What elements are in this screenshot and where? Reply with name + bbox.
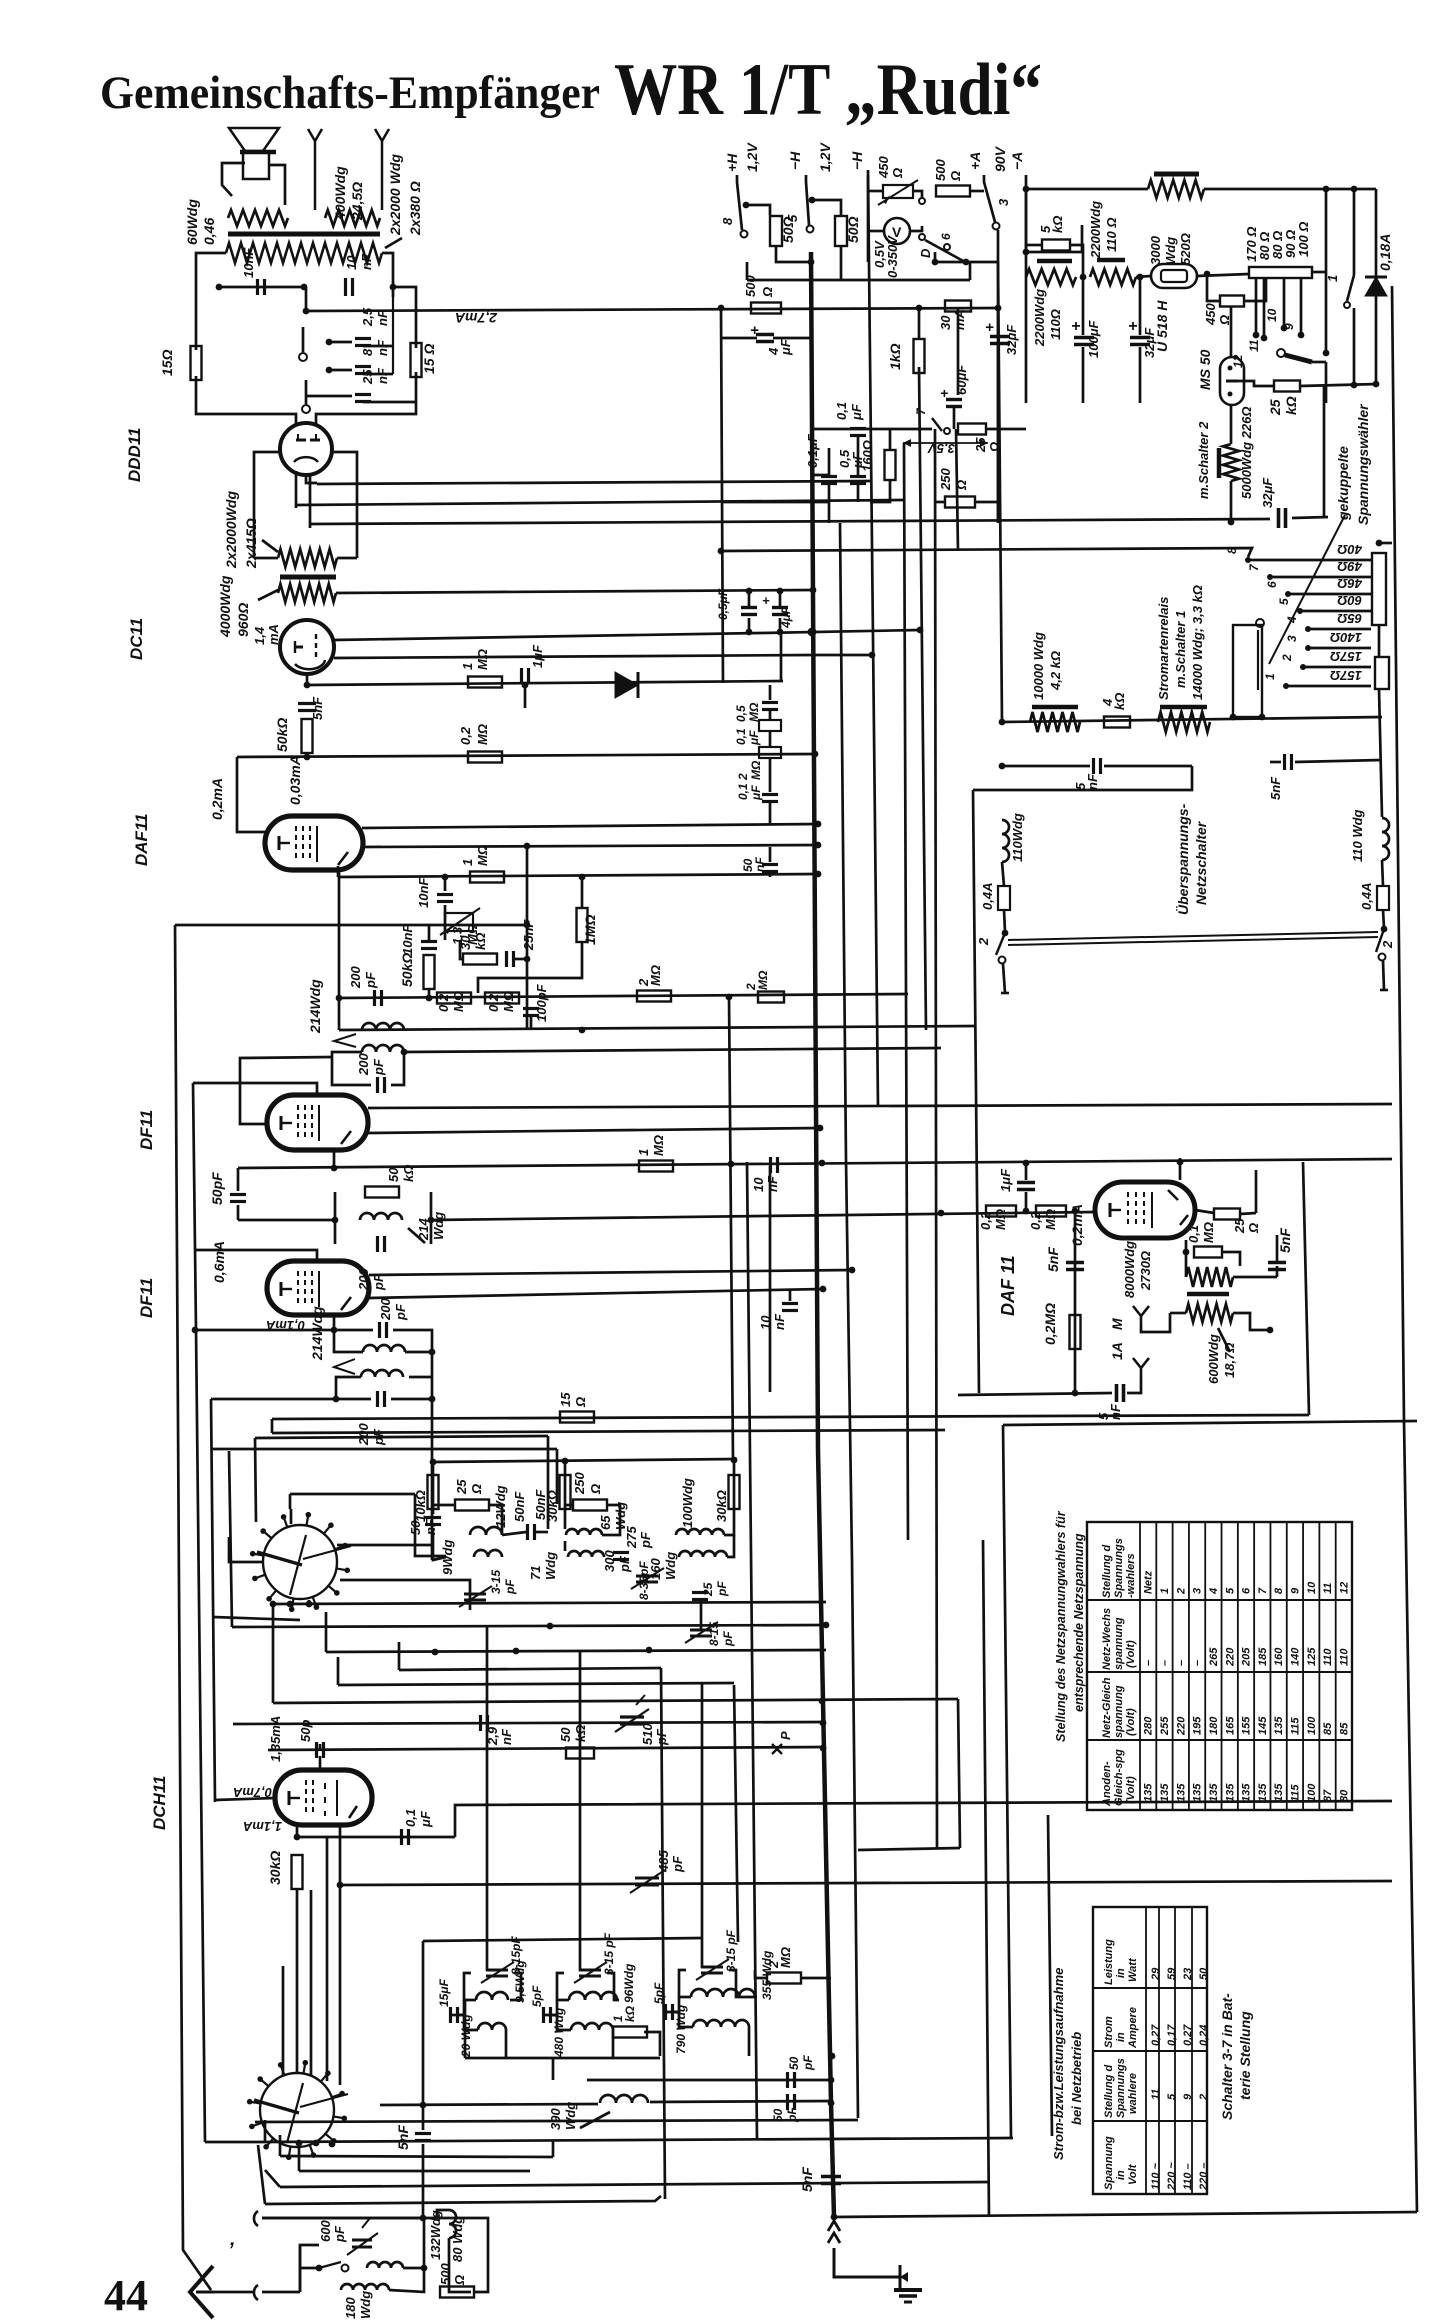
svg-text:entsprechende Netzspannung: entsprechende Netzspannung (1072, 1533, 1086, 1712)
svg-text:200: 200 (356, 1423, 371, 1446)
svg-text:nF: nF (375, 309, 390, 326)
svg-text:0,2mA: 0,2mA (209, 778, 225, 820)
bus y2142 (265, 2138, 1013, 2142)
wire y429 (811, 428, 932, 431)
svg-text:2: 2 (1380, 940, 1395, 949)
winding 2x2000Wdg 2x415Ω (278, 549, 337, 567)
svg-text:25: 25 (701, 1582, 715, 1597)
capacitor 200pF ifb (378, 1077, 385, 1093)
table2 h4b (1115, 1968, 1127, 1978)
wire speaker right (268, 165, 285, 205)
label 2MΩ a2 (648, 965, 663, 986)
wire 10nF2 up (428, 925, 431, 941)
wire 110 down (1002, 862, 1004, 886)
wire 50nF det leads2 (769, 874, 772, 877)
table1 wechs 3 (1192, 1660, 1204, 1666)
table1 row label 9 (1290, 1587, 1302, 1594)
bus y766 b (1104, 765, 1192, 768)
node x1083 y277 (1080, 274, 1087, 281)
selector num 3 (1285, 635, 1299, 642)
stub tick right (1380, 989, 1388, 992)
label 450Ω msb (1217, 315, 1232, 326)
osc group2 coil1 (569, 1992, 617, 2000)
capacitor 0,5µF (850, 477, 866, 484)
table1 anod 2 (1175, 1783, 1187, 1802)
selector label 157&#937; 2 (1330, 649, 1362, 664)
wire avc v2 (444, 905, 447, 940)
leader line 2x2000Wdg (385, 238, 402, 248)
resistor 15Ω right (411, 343, 422, 377)
svg-text:kΩ: kΩ (1050, 216, 1065, 233)
table1 header col1b (1113, 1538, 1125, 1598)
wire osc down2 (552, 2058, 555, 2080)
capacitor 0,1µF a (850, 429, 866, 436)
plug arrow (828, 2221, 840, 2243)
wire 600 left (1170, 1312, 1186, 1315)
label 3-15pF a2 (503, 1579, 517, 1595)
svg-text:Spannung: Spannung (1103, 2136, 1115, 2190)
svg-text:4: 4 (1285, 616, 1299, 624)
svg-text:MΩ: MΩ (475, 649, 490, 670)
node x582 y1030 (579, 1027, 586, 1034)
resistor 50Ω b (835, 216, 847, 246)
table1 header col3 (1101, 1677, 1113, 1738)
label 0,5µF b (850, 451, 865, 469)
svg-text:500: 500 (743, 275, 758, 297)
svg-text:110Ω: 110Ω (1048, 309, 1063, 340)
wire x1326 (1325, 189, 1328, 353)
label 110Wdg left (1010, 813, 1025, 862)
svg-text:135: 135 (1143, 1783, 1155, 1802)
wire x1326 down (1325, 362, 1328, 403)
node x1026 y189 (1023, 186, 1030, 193)
core bar out (1187, 1292, 1229, 1297)
svg-text:pF: pF (670, 1855, 685, 1873)
node x935 y262 (932, 259, 939, 266)
label 10nF y1165 (751, 1177, 766, 1192)
svg-text:MΩ: MΩ (756, 970, 770, 990)
wire 100uF v (1082, 277, 1085, 335)
trio B wires (564, 1462, 567, 1529)
bus y1052 (404, 1048, 941, 1052)
svg-text:–: – (1175, 1660, 1187, 1666)
label 8nF b (375, 339, 390, 356)
wire box right2 (449, 2238, 471, 2292)
table1 gleich 12 (1338, 1722, 1350, 1735)
capacitor 50pF dch (317, 1742, 324, 1758)
label DAF11 no1 (132, 813, 151, 866)
switch1 wire b (213, 1617, 300, 1620)
label 71Wdg (528, 1566, 543, 1580)
diode (615, 672, 638, 698)
drum2 riser b (310, 1890, 313, 2076)
node -H (808, 259, 815, 266)
table1 wechs 2 (1175, 1660, 1187, 1666)
label 6 (939, 233, 953, 240)
osc group1 trimmer (481, 1962, 514, 1983)
drum2 riser c (326, 1838, 329, 2081)
label 1MΩ a (460, 663, 475, 670)
wire 250 leads (935, 501, 945, 504)
label 1,1mA (243, 1819, 282, 1834)
table1 row label 3 (1192, 1588, 1204, 1594)
label 0,4A right (1359, 883, 1374, 910)
winding 60Wdg 0,46Ω (228, 210, 288, 226)
wire avc 30k (460, 940, 464, 959)
selector num 4 (1285, 616, 1299, 624)
label 10nF avc (416, 877, 431, 908)
node x1002 y722 (999, 719, 1006, 726)
node x731 y1164 (728, 1161, 735, 1168)
svg-text:Strom: Strom (1103, 2016, 1115, 2048)
label 2,5nF b (375, 309, 390, 326)
label 50nF b (512, 1491, 527, 1522)
selector contact 8 (1245, 557, 1251, 563)
bus y632 (334, 630, 920, 640)
svg-text:2: 2 (976, 937, 991, 946)
svg-text:MΩ: MΩ (651, 1135, 666, 1156)
bus y2204 (265, 2196, 661, 2204)
cap 8 right (363, 373, 393, 376)
svg-text:0,18A: 0,18A (1377, 234, 1393, 271)
svg-text:135: 135 (1159, 1783, 1171, 1802)
resistor 1MΩ a (468, 677, 502, 688)
bus y762 (1270, 761, 1281, 764)
svg-text:Strom-bzw.Leistungsaufnahme: Strom-bzw.Leistungsaufnahme (1051, 1968, 1066, 2160)
table2 h1b (1115, 2170, 1127, 2180)
table2 watt 1 (1166, 1967, 1178, 1980)
svg-text:pF: pF (363, 971, 378, 989)
label 50kΩ if2 (386, 1167, 401, 1182)
node -A (1023, 249, 1030, 256)
trio A wires5 (502, 1532, 526, 1535)
svg-text:spannung: spannung (1113, 1617, 1125, 1670)
selector contact 5 (1297, 608, 1303, 614)
capacitor 5nF right (1285, 754, 1292, 770)
label 600pFb (332, 2225, 347, 2243)
svg-text:2200Wdg: 2200Wdg (1032, 289, 1047, 347)
osc group3 coil1 (691, 1989, 755, 1997)
wire relay bar (1312, 361, 1326, 364)
wire DCH grid left (215, 1798, 275, 1800)
label 1kΩ ps (887, 343, 903, 370)
svg-text:WR 1/T „Rudi“: WR 1/T „Rudi“ (614, 49, 1042, 131)
wire 110r down (1382, 860, 1383, 886)
wire thick bottom (831, 2103, 834, 2217)
svg-text:0,4A: 0,4A (980, 883, 995, 910)
capacitor 200pF if1 (375, 990, 382, 1006)
svg-text:0,17: 0,17 (1166, 2024, 1178, 2046)
node sw2 right (1381, 926, 1388, 933)
table1 row label 1 (1159, 1588, 1171, 1594)
label 1,2V b (817, 142, 833, 172)
osc group1 coil1 (476, 1992, 508, 2000)
label 170Ω blk (1244, 227, 1259, 262)
table1 anod 5 (1224, 1783, 1236, 1802)
winding 4000Wdg 960Ω (278, 584, 336, 602)
label DF11 no1 (137, 1110, 156, 1150)
svg-text:0,03mA: 0,03mA (287, 755, 303, 805)
label 214Wdg a (307, 979, 323, 1034)
drum2 riser a (282, 1966, 285, 2076)
wire sw2r stub (1383, 961, 1384, 990)
bus y825 from DAF11 (362, 824, 818, 828)
page number 44 (104, 2271, 148, 2320)
svg-text:520Ω: 520Ω (1178, 233, 1193, 265)
svg-text:7: 7 (1257, 1587, 1269, 1594)
svg-text:5: 5 (785, 214, 800, 222)
capacitor 5nF ns (1094, 758, 1101, 774)
label 3000Wdg (1148, 235, 1163, 265)
table Leistungsaufnahme grid (1093, 1907, 1207, 2194)
label -H a (787, 151, 803, 170)
coil 214Wdg d (363, 1345, 405, 1352)
wire y2204 left (258, 2145, 265, 2204)
svg-text:80: 80 (1338, 1789, 1350, 1802)
label 500Ω antb (452, 2275, 467, 2286)
svg-text:135: 135 (1241, 1783, 1253, 1802)
svg-text:Überspannungs-: Überspannungs- (1175, 803, 1191, 915)
trimmer 600pF (347, 2218, 378, 2255)
core bar 3000Wdg (1154, 172, 1199, 177)
label 18,7Ω (1222, 1343, 1237, 1378)
label 60Wdg 0,46Ω (184, 199, 200, 245)
node sw ant (316, 2265, 323, 2272)
svg-text:2x2000Wdg: 2x2000Wdg (223, 491, 239, 569)
node x998 y308 (995, 305, 1002, 312)
label 200pF ifb (356, 1053, 371, 1076)
svg-text:1μF: 1μF (998, 1168, 1013, 1192)
svg-text:110: 110 (1322, 1648, 1334, 1666)
wire y2156 upturn (552, 2140, 555, 2157)
label 0,1µF a (834, 402, 849, 420)
wire 50nF det leads (769, 847, 772, 862)
svg-text:wahlere: wahlere (1127, 2073, 1139, 2114)
svg-text:MΩ: MΩ (451, 991, 466, 1012)
svg-text:Netz-Wechs: Netz-Wechs (1101, 1608, 1113, 1670)
svg-text:100pF: 100pF (534, 983, 549, 1022)
svg-text:μF: μF (747, 730, 761, 746)
label 5kΩb (1050, 216, 1065, 233)
wire 32uF v2 (1139, 347, 1142, 403)
label 2x415Ω (243, 518, 259, 569)
svg-text:μF: μF (849, 403, 864, 421)
trio C wire3 (700, 1600, 703, 1630)
label 0,1µF a2 (849, 403, 864, 421)
osc group3 trimlab (724, 1929, 738, 1972)
svg-text:115: 115 (1290, 1784, 1302, 1802)
capacitor 25pF c (692, 1593, 708, 1600)
trio C wires (724, 1462, 734, 1535)
socket 2 (254, 2211, 258, 2226)
svg-text:μF: μF (850, 451, 865, 469)
osc group3 coillab2 (674, 2004, 688, 2054)
svg-text:in: in (1115, 2170, 1127, 2180)
wire 32uF v (1139, 277, 1142, 335)
wire coil e left (336, 1377, 361, 1399)
bus y1438 (255, 1436, 548, 1438)
svg-text:0,1μF: 0,1μF (805, 433, 820, 468)
label 8-15 pF (707, 1622, 721, 1646)
wire 2,7mA bus (306, 308, 998, 311)
wire x432 vertical (431, 1352, 434, 1560)
label 600Wdg (1206, 1334, 1221, 1384)
svg-text:DAF 11: DAF 11 (998, 1255, 1018, 1316)
node 5 (809, 197, 816, 204)
svg-text:5nF: 5nF (1045, 1247, 1061, 1272)
capacitor 32µF a (1130, 338, 1150, 345)
osc group3 w3 (664, 1997, 679, 2012)
svg-text:pF: pF (371, 1058, 386, 1076)
wire -A right (1026, 225, 1082, 252)
svg-text:μF: μF (418, 1810, 433, 1828)
resistor 2MΩ a (637, 991, 671, 1002)
tap4 end (1298, 332, 1305, 339)
label 2 right (1380, 940, 1395, 949)
wire 10nF-b down (305, 287, 308, 311)
label 0,1µF dch (403, 1809, 418, 1827)
label 50pF dch (298, 1720, 313, 1742)
capacitor 10nF 2 (421, 942, 437, 949)
coil 110Wdg right (1382, 818, 1389, 860)
label 510pF (640, 1723, 655, 1745)
label 500Ω ant (438, 2263, 453, 2285)
label 50nF a (408, 1520, 423, 1535)
label det 0,5 (734, 705, 748, 722)
label 2x380Ω (407, 181, 423, 236)
label 8-35pF (637, 1561, 651, 1600)
node x941 y1213 (938, 1210, 945, 1217)
wire ms50 down (1230, 405, 1233, 444)
svg-text:(Volt): (Volt) (1125, 1640, 1137, 1668)
label 8000Wdg (1122, 1241, 1137, 1298)
table1 anod 3 (1192, 1783, 1204, 1802)
label 1,2V a (744, 142, 760, 172)
svg-text:nF: nF (772, 1313, 787, 1330)
node x1270 y1330 (1267, 1327, 1274, 1334)
svg-text:Stromartenrelais: Stromartenrelais (1156, 597, 1171, 700)
table2 volt 2 (1182, 2163, 1194, 2190)
svg-text:60Ω: 60Ω (1337, 593, 1362, 608)
table1 gleich 1 (1159, 1716, 1171, 1736)
table1 header col1 (1101, 1545, 1113, 1598)
wire 32c b (997, 346, 1000, 523)
wire nest rv8 (734, 1685, 738, 1942)
svg-text:5: 5 (1277, 598, 1291, 605)
bus y925 avc (175, 924, 527, 927)
svg-text:Ampere: Ampere (1127, 2007, 1139, 2049)
svg-text:10nF: 10nF (416, 877, 431, 908)
label 180Wdg (343, 2297, 358, 2319)
svg-text:135: 135 (1208, 1783, 1220, 1802)
wire 600 right (1233, 1313, 1270, 1330)
capacitor 50pF (230, 1195, 246, 1202)
svg-text:terie Stellung: terie Stellung (1237, 2011, 1253, 2100)
cluster B rlabel2 (0, 0, 1, 1)
bus y1113 from DF11-1 (368, 1104, 1392, 1108)
resistor 5kΩ (1042, 240, 1070, 251)
table1 gleich 10 (1306, 1716, 1318, 1735)
table1 anod 6 (1241, 1783, 1253, 1802)
tube DAF11 (265, 816, 363, 870)
table1 gleich 4 (1208, 1716, 1220, 1735)
wire coil e right (409, 1376, 432, 1379)
capacitor 10nF if2 (782, 1304, 798, 1311)
label 250Ω psb (954, 480, 969, 491)
drum1 tail b (308, 1600, 311, 1604)
svg-text:Wdg: Wdg (543, 1552, 558, 1580)
svg-text:250: 250 (572, 1472, 587, 1495)
wire +A down2 (998, 262, 1002, 722)
wire y1494 left (289, 1494, 292, 1509)
label plus 4uF (750, 322, 759, 339)
svg-text:510: 510 (640, 1723, 655, 1745)
capacitor 5nF bl (415, 2134, 431, 2141)
label 5000Wdg226 (1239, 406, 1254, 499)
table1 anod 11 (1322, 1789, 1334, 1802)
table1 wechs 1 (1159, 1660, 1171, 1666)
label 485pF (656, 1850, 671, 1873)
osc group1 cap (451, 2007, 458, 2023)
svg-text:Netz: Netz (1143, 1570, 1155, 1594)
label mSchalter2 (1196, 421, 1211, 499)
svg-text:5nF: 5nF (1277, 1228, 1293, 1253)
svg-text:0,24: 0,24 (1198, 2025, 1210, 2046)
wire x340 to drum (339, 1885, 342, 2030)
svg-text:Stellung des Netzspannungwahle: Stellung des Netzspannungwahlers für (1054, 1510, 1068, 1742)
bus y1670 (399, 1668, 661, 1670)
label 60µF (954, 364, 969, 395)
svg-text:11: 11 (1322, 1583, 1334, 1594)
terminal -Hb (867, 175, 870, 262)
label 5nF right (1268, 776, 1283, 800)
svg-text:nF: nF (359, 253, 374, 270)
selector label 46&#937; 6 (1337, 576, 1363, 591)
resistor 1MΩ vert (577, 908, 588, 942)
node x1326 y362 (1323, 350, 1330, 357)
label 0,6mA (211, 1241, 227, 1283)
svg-text:3-15: 3-15 (489, 1570, 503, 1594)
svg-text:25: 25 (454, 1479, 469, 1495)
label 80Ω blk (1257, 232, 1272, 260)
wire cap x776 b (779, 618, 782, 632)
svg-text:32μF: 32μF (1004, 324, 1019, 355)
wire y475 (811, 474, 829, 477)
label 32µF c (1004, 324, 1019, 355)
node x339 y998 (336, 995, 343, 1002)
wire pot right (913, 191, 922, 198)
svg-text:μF: μF (778, 338, 793, 356)
leader 2x415 (262, 540, 278, 552)
resistor 15Ω line (560, 1412, 594, 1423)
trio C wires2 (727, 1535, 734, 1557)
label det 0,1µF (734, 728, 748, 745)
svg-text:5nF: 5nF (395, 2125, 411, 2150)
node thick y590 (810, 587, 817, 594)
wire osc down1 (464, 2000, 467, 2058)
winding 8000Wdg 2730Ω (1186, 1267, 1233, 1287)
wire 2x415 right join (337, 557, 357, 560)
wire x998 down (997, 252, 1000, 523)
bus y766 (1002, 765, 1090, 768)
block tap 1 (1255, 278, 1258, 335)
wire 01M right (1222, 1252, 1240, 1266)
svg-text:280: 280 (1143, 1716, 1155, 1736)
antenna socket (254, 2285, 258, 2300)
wire 8 up (746, 205, 770, 215)
node x1354 y189 (1351, 186, 1358, 193)
wire x958 dch (958, 1699, 960, 1848)
